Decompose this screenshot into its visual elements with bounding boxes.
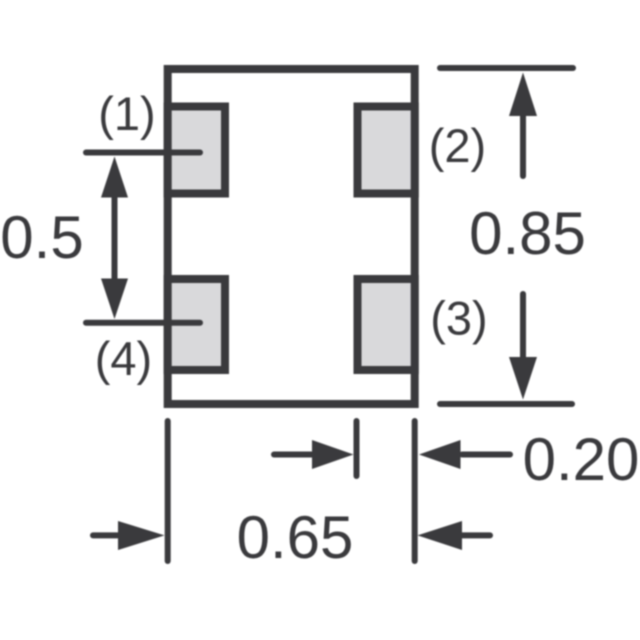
svg-text:0.20: 0.20	[523, 426, 640, 493]
svg-text:(1): (1)	[98, 87, 155, 140]
svg-text:(2): (2)	[429, 119, 486, 172]
svg-text:0.5: 0.5	[0, 204, 83, 271]
svg-text:0.85: 0.85	[469, 200, 586, 267]
svg-text:0.65: 0.65	[237, 504, 354, 571]
svg-text:(4): (4)	[95, 332, 152, 385]
svg-text:(3): (3)	[430, 292, 487, 345]
